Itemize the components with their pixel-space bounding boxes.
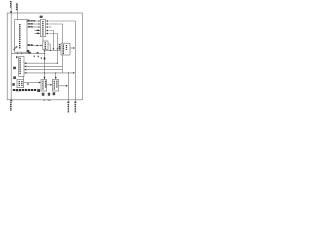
- block E: address buffer box: [17, 80, 24, 88]
- label: text columns inside block F: [54, 81, 58, 90]
- block A: command decoder box: [40, 20, 45, 37]
- wire: block L bottom pins to horizontal line: [17, 52, 19, 53]
- outer frame of semiconductor device: [7, 13, 82, 100]
- label: text inside block B: [45, 42, 46, 49]
- label: small numeral left of block W top: [16, 56, 18, 58]
- block D: column decoder box: [41, 80, 47, 92]
- label: numeral below block D: [42, 93, 45, 96]
- node label: top-left pin name (vertical text): [10, 1, 12, 8]
- pin ticks at block A left edge: [38, 20, 41, 34]
- junction dot: [50, 50, 51, 51]
- label: text columns inside block C: [63, 44, 68, 54]
- label: vertical text inside block W: [19, 58, 20, 74]
- wire: right inner bus x=68.4 down below frame: [67, 73, 69, 102]
- wire: block A pin2 to block C top: [48, 24, 62, 43]
- label: numeral at bottom-right of block L: [27, 50, 30, 53]
- wire: left bus line x=11.2 full height: [10, 2, 12, 102]
- wire: input stub to block L: [17, 3, 19, 20]
- wire: block A pin1 to right bus corner: [48, 21, 75, 102]
- wire: block A pin4 down to sense line: [48, 31, 53, 50]
- bus row 2 with arrowhead: [24, 66, 26, 68]
- wire: block A pin3 short stub: [48, 26, 51, 28]
- arrowhead below block B pointing down: [44, 50, 46, 52]
- label: numeral 12 above block A: [40, 16, 43, 18]
- wire: arrow into block C left: [57, 47, 59, 49]
- node label: bottom pin name under x=75.4 (vertical text): [74, 102, 76, 113]
- label: text inside block E: [19, 81, 23, 86]
- bus row 3 with arrowhead: [24, 69, 26, 71]
- wire: block W bottom to block E top: [23, 76, 25, 79]
- label text on horizontal line y=53.6: [28, 52, 39, 57]
- junction dot: [21, 53, 22, 54]
- wire from bus row 4 into block F top with arrowhead: [55, 73, 57, 78]
- label: numeral 20 at top-right of block L: [27, 20, 29, 22]
- label: vertical text inside block A: [42, 21, 43, 36]
- block B: latch box: [43, 41, 48, 50]
- dark dashes on bottom frame under blocks D/F: [43, 99, 45, 100]
- node label: bottom-left pin name below frame (vertical text): [10, 102, 12, 110]
- wire: sense amp horizontal line: [45, 50, 59, 52]
- node label: second top pin name (vertical text): [16, 4, 17, 11]
- bus row 4 with arrowhead, to right bus: [24, 72, 26, 74]
- label: text columns inside block D: [42, 81, 46, 90]
- wire: block D to block F: [47, 84, 51, 86]
- wire: block B right pin down to sense line: [48, 44, 50, 51]
- label: numeral 100 at left of block L bottom (slanted): [13, 47, 16, 50]
- short line under block E: [16, 91, 22, 93]
- wire: center vertical from block B down to block D: [44, 50, 46, 80]
- wire: block A bottom to block B top: [42, 37, 44, 41]
- arrowheads on right pins of block A: [46, 20, 48, 34]
- label: numeral below block F: [53, 92, 56, 95]
- label: bottom caption text row: [13, 89, 36, 91]
- tiny labels above bus rows: [44, 57, 46, 60]
- block C: output circuit box: [61, 43, 70, 55]
- label: vertical text inside block L: [19, 24, 21, 48]
- wire: block A pin5 down to bus row 1: [48, 34, 57, 64]
- wire: horizontal line y=53.6 from left bus to center vertical: [11, 53, 44, 55]
- label: vertical numeral left of block C: [59, 44, 60, 51]
- junction dot: [44, 53, 45, 54]
- wires from block L to block A pins (5 rows): [27, 21, 40, 34]
- labels on wires to block A: [28, 20, 39, 34]
- block W: word driver strip: [19, 57, 24, 77]
- block F: data output box: [52, 80, 58, 92]
- label: numeral with tick left of wire: [12, 83, 15, 86]
- wire: block C right pin to right bus: [70, 47, 73, 49]
- arrowhead into block D top: [44, 77, 46, 79]
- bus row 1 with arrowhead: [24, 62, 26, 64]
- label: numeral blob left of block D: [37, 89, 40, 92]
- wire: block E to block D: [24, 82, 39, 84]
- wire from block L to block B with label and arrow: [27, 45, 43, 47]
- label: numeral left of block E: [13, 76, 16, 79]
- node label: bottom pin name under x=68.4 (vertical text): [67, 102, 69, 113]
- label: numeral left of block W: [13, 67, 16, 70]
- wire: block F to right inner bus with arrow: [59, 85, 66, 87]
- wire: block C bottom pin down to bus row 4: [61, 55, 63, 73]
- junction blob where left bus crosses bottom frame: [10, 100, 12, 102]
- block L: tall input buffer box: [15, 20, 27, 53]
